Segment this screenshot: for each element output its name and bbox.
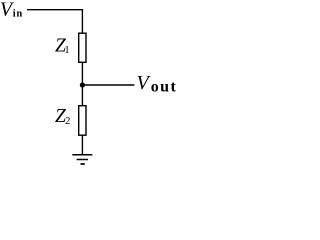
wire node to Vout	[82, 84, 134, 86]
svg-text:in: in	[13, 8, 23, 19]
svg-text:2: 2	[65, 116, 70, 127]
label Z1	[55, 35, 70, 56]
ground	[72, 155, 92, 164]
svg-text:out: out	[151, 78, 177, 95]
wire Z2 bottom to ground	[81, 135, 83, 155]
wire top vertical corner down to Z1	[81, 10, 83, 34]
svg-text:1: 1	[64, 45, 69, 56]
wire top horizontal from Vin to corner	[27, 9, 83, 11]
wire node down to Z2	[81, 85, 83, 106]
svg-text:V: V	[137, 72, 152, 94]
impedance Z2	[79, 106, 86, 136]
node Vout label	[137, 72, 177, 95]
wire Z1 bottom to node	[81, 62, 83, 85]
node junction dot	[80, 82, 85, 87]
impedance Z1	[79, 33, 86, 62]
node Vin label	[0, 0, 22, 20]
label Z2	[55, 106, 70, 127]
